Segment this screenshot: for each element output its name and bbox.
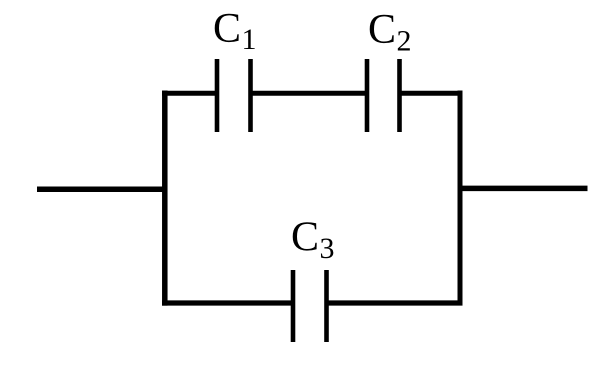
svg-text:2: 2 [397, 25, 412, 58]
capacitor C2 [367, 59, 400, 132]
wire: top segment between C1 and C2 [251, 91, 366, 96]
svg-text:1: 1 [242, 23, 257, 56]
wire: left vertical side of loop [162, 91, 168, 306]
svg-text:C: C [368, 7, 396, 53]
svg-text:C: C [213, 6, 241, 52]
capacitor C1 [217, 59, 251, 132]
svg-text:3: 3 [320, 232, 335, 265]
wire: top segment from C2 to right corner [400, 91, 463, 96]
wire: left terminal lead [37, 186, 167, 192]
wire: right vertical side of loop [458, 91, 463, 306]
wire: right terminal lead [458, 186, 588, 192]
svg-text:C: C [291, 214, 319, 260]
capacitor C3 [293, 270, 327, 342]
wire: bottom segment from C3 to right corner [327, 300, 463, 305]
wire: top segment from left corner to C1 [162, 91, 216, 96]
wire: bottom segment from left corner to C3 [162, 300, 292, 305]
